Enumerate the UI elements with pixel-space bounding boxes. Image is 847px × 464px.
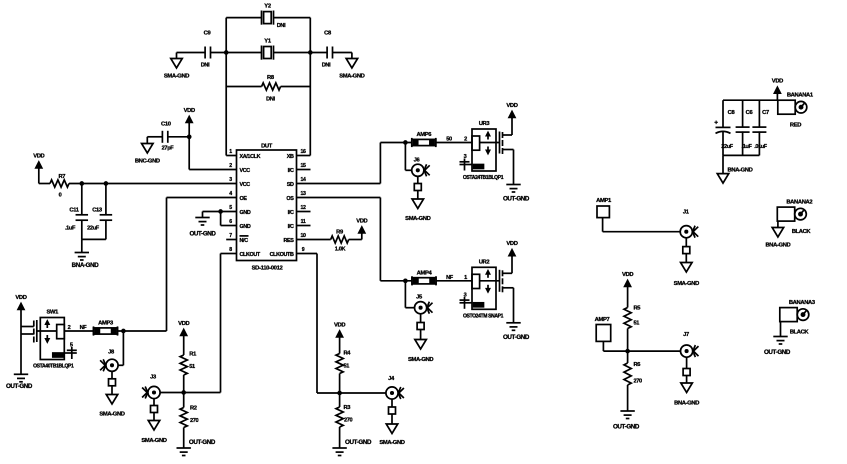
svg-text:VDD: VDD (15, 295, 26, 301)
svg-text:5: 5 (229, 205, 232, 211)
svg-text:RED: RED (790, 123, 801, 129)
ground SMA-GND (J1) (674, 238, 699, 287)
svg-text:8: 8 (229, 247, 232, 253)
svg-text:2: 2 (464, 137, 467, 143)
power VDD (banana input) (772, 79, 783, 101)
svg-text:SMA-GND: SMA-GND (339, 74, 364, 80)
svg-text:GND: GND (240, 224, 251, 230)
wire: AMP1 to J1 (603, 218, 680, 232)
ground OUT-GND (R6) (613, 385, 640, 431)
svg-text:12: 12 (300, 205, 306, 211)
svg-text:Y1: Y1 (264, 39, 272, 45)
connector J5 (415, 295, 433, 314)
banana jack BANANA2 (777, 200, 812, 235)
wire: tap to J6 (405, 143, 411, 171)
svg-text:DNI: DNI (201, 63, 210, 69)
svg-text:OUT-GND: OUT-GND (503, 196, 530, 203)
capacitor C6 (736, 100, 754, 155)
svg-text:C8: C8 (728, 110, 736, 116)
svg-text:C7: C7 (762, 110, 769, 116)
power VDD (pin 2 supply) (184, 108, 195, 170)
resistor R1 (180, 352, 197, 376)
svg-text:VDD: VDD (33, 153, 44, 159)
svg-text:AMP6: AMP6 (416, 132, 432, 138)
svg-text:270: 270 (190, 418, 199, 424)
svg-text:VCC: VCC (240, 182, 251, 188)
svg-text:I/C: I/C (288, 168, 294, 174)
buffer UR2 (460, 241, 530, 341)
ground SMA-GND (J4) (379, 399, 404, 446)
svg-text:SMA-GND: SMA-GND (99, 412, 124, 418)
wire: top rail left (crystal network) (225, 18, 227, 156)
svg-text:9: 9 (302, 247, 305, 253)
svg-text:BNA-GND: BNA-GND (72, 262, 100, 269)
capacitor C10 (161, 122, 174, 152)
wire: R5 to junction (626, 329, 629, 353)
ground SMA-GND (J5) (408, 314, 433, 363)
resistor R8 (262, 75, 281, 103)
svg-text:11: 11 (301, 219, 306, 225)
svg-text:BNA-GND: BNA-GND (728, 168, 753, 174)
svg-text:VDD: VDD (184, 108, 195, 114)
attenuator AMP4 (412, 270, 436, 285)
connector J3 (142, 375, 160, 399)
connector J8 (100, 350, 118, 372)
svg-text:CLKOUT: CLKOUT (240, 252, 261, 258)
wire: top rail right (crystal network) (309, 18, 311, 156)
svg-text:51: 51 (189, 364, 195, 370)
svg-text:SMA-GND: SMA-GND (164, 74, 189, 80)
wire: tap to J5 (405, 281, 414, 308)
buffer UR3 (460, 103, 530, 203)
svg-text:OUT-GND: OUT-GND (189, 231, 216, 238)
capacitor C13 (87, 184, 112, 240)
ground OUT-GND (pins 5,5.6) (189, 212, 216, 238)
svg-text:51: 51 (344, 364, 350, 370)
svg-text:OUT-GND: OUT-GND (189, 439, 216, 446)
resistor R4 (336, 351, 351, 374)
svg-text:VDD: VDD (334, 322, 345, 328)
power VDD (SW1) (15, 295, 26, 375)
svg-text:.1uF: .1uF (742, 144, 753, 150)
svg-text:BLACK: BLACK (792, 229, 812, 235)
power VDD (R7 input) (33, 153, 44, 183)
ground BNA-GND (J7) (674, 358, 699, 407)
svg-text:16: 16 (300, 149, 306, 155)
svg-text:14: 14 (300, 177, 306, 183)
svg-text:XB: XB (287, 154, 294, 160)
ground BNA-GND (cap bank) (717, 155, 752, 183)
svg-text:.01uF: .01uF (754, 144, 768, 150)
pin 8 number (229, 247, 232, 253)
svg-text:SD: SD (287, 182, 294, 188)
svg-text:OS: OS (286, 196, 294, 202)
svg-text:J4: J4 (388, 376, 395, 382)
svg-text:DUT: DUT (261, 144, 273, 150)
ground BNA-GND (BANANA2) (765, 221, 790, 248)
wire: AMP7 to J7 row (603, 341, 680, 351)
node: J6 tap (404, 141, 407, 144)
wire: SW1 pin 2 to AMP3 (64, 325, 93, 331)
svg-text:3: 3 (229, 177, 232, 183)
wire: C10 to VDD rail (147, 136, 189, 138)
node: C10 taps VDD rail (188, 135, 191, 138)
svg-text:OE: OE (240, 196, 248, 202)
svg-text:SMA-GND: SMA-GND (674, 281, 699, 287)
svg-text:6: 6 (229, 219, 232, 225)
wire: Y1 row (177, 52, 352, 54)
ground SMA-GND (J8) (99, 372, 124, 418)
ground OUT-GND (SW1) (6, 374, 33, 390)
svg-text:DNI: DNI (277, 23, 286, 29)
resistor R6 (624, 351, 642, 385)
attenuator AMP6 (412, 132, 436, 147)
svg-text:OSTO24TM SNAP1: OSTO24TM SNAP1 (463, 313, 504, 319)
ground SMA-GND (J6) (405, 177, 430, 222)
capacitor C7 (752, 100, 769, 155)
resistor R2 (180, 393, 198, 428)
connector J4 (386, 376, 404, 399)
svg-text:13: 13 (300, 191, 306, 197)
svg-text:BNC-GND: BNC-GND (135, 159, 160, 165)
svg-text:C10: C10 (161, 122, 171, 128)
wire: SW1 transistor leads (21, 327, 34, 335)
svg-text:VDD: VDD (622, 272, 633, 278)
svg-text:VDD: VDD (506, 103, 517, 109)
wire: R4 to junction (338, 374, 341, 395)
svg-text:R8: R8 (267, 75, 275, 81)
svg-text:50: 50 (446, 137, 452, 143)
svg-text:R6: R6 (634, 362, 641, 368)
svg-text:J8: J8 (108, 350, 115, 356)
svg-text:R4: R4 (344, 351, 352, 357)
svg-text:R5: R5 (634, 306, 642, 312)
svg-text:J7: J7 (683, 332, 689, 338)
svg-text:J6: J6 (414, 158, 421, 164)
svg-text:VCC: VCC (240, 168, 251, 174)
svg-text:2: 2 (68, 325, 71, 331)
svg-text:SMA-GND: SMA-GND (408, 357, 433, 363)
svg-text:AMP7: AMP7 (595, 317, 610, 323)
svg-text:BANANA1: BANANA1 (787, 93, 814, 99)
wire: pins 5,6 to OUT-GND (203, 210, 237, 226)
svg-text:UR3: UR3 (479, 121, 491, 127)
wire: AMP6 to UR3 pin 2 (436, 137, 472, 143)
svg-text:OUT-GND: OUT-GND (345, 439, 372, 446)
pin 7 N/C overline (240, 235, 249, 237)
svg-text:C13: C13 (92, 208, 103, 214)
node: Y1 row joins left rail (225, 51, 228, 54)
header AMP1 (596, 198, 612, 218)
svg-text:OUT-GND: OUT-GND (764, 349, 791, 356)
power VDD (R4) (334, 322, 345, 353)
svg-text:4: 4 (229, 191, 232, 197)
svg-text:C11: C11 (69, 208, 79, 214)
svg-text:CLKOUTB: CLKOUTB (270, 252, 294, 258)
pin 11 stub (297, 219, 311, 226)
resistor R7 (50, 174, 69, 199)
svg-text:XA/1CLK: XA/1CLK (240, 154, 261, 160)
svg-text:C8: C8 (324, 31, 332, 37)
pin 14 number (300, 177, 306, 183)
banana jack BANANA3 (780, 300, 816, 335)
svg-text:UR2: UR2 (479, 259, 490, 265)
svg-text:J1: J1 (683, 210, 690, 216)
capacitor C8 (322, 31, 333, 69)
svg-text:VDD: VDD (506, 241, 517, 247)
node: C11 tap (80, 182, 83, 185)
svg-text:SW1: SW1 (47, 310, 60, 316)
wire: Y2 top row (226, 17, 310, 19)
wire: AMP4 to UR2 pin 1 (436, 275, 472, 281)
ground SMA-GND (left of C9) (164, 53, 189, 80)
wire: pin 8 CLKOUT down to output row (160, 254, 236, 393)
wire: R7 to pin 3 (39, 183, 237, 185)
svg-text:2: 2 (229, 163, 232, 169)
attenuator AMP3 (94, 321, 118, 336)
svg-text:J5: J5 (416, 295, 423, 301)
wire: VDD to pin 2 (189, 169, 236, 171)
capacitor C9 (201, 31, 212, 69)
crystal Y1 (262, 39, 274, 60)
svg-text:I/C: I/C (288, 210, 294, 216)
svg-text:VDD: VDD (178, 321, 189, 327)
pin 12 stub (297, 205, 311, 212)
header AMP7 (595, 317, 611, 341)
svg-text:BLACK: BLACK (790, 330, 810, 336)
connector J6 (412, 158, 430, 177)
svg-text:22uF: 22uF (721, 144, 733, 150)
ground OUT-GND (R2) (177, 428, 216, 456)
svg-text:BNA-GND: BNA-GND (674, 401, 699, 407)
ground OUT-GND (R3) (332, 427, 372, 456)
ground SMA-GND (right of C8) (339, 53, 364, 80)
wire: cap commons (82, 238, 106, 240)
svg-text:OUT-GND: OUT-GND (613, 424, 640, 431)
svg-text:AMP1: AMP1 (596, 198, 612, 204)
node: Y1 row joins right rail (309, 51, 312, 54)
svg-text:RES: RES (283, 238, 294, 244)
pin 2 number (229, 163, 232, 169)
pin 10 number (300, 233, 306, 239)
resistor R9 (297, 230, 362, 253)
svg-text:OSTA40TB1BLQP1: OSTA40TB1BLQP1 (33, 364, 74, 370)
svg-text:C6: C6 (746, 110, 754, 116)
svg-text:NF: NF (446, 275, 454, 281)
ground BNC-GND (left of C10) (135, 137, 160, 165)
svg-text:SD-110-0012: SD-110-0012 (252, 266, 284, 272)
svg-text:DNI: DNI (266, 97, 275, 103)
svg-text:1: 1 (229, 149, 232, 155)
ground BNA-GND (under C11/C13) (72, 239, 100, 269)
svg-text:R9: R9 (336, 230, 344, 236)
svg-text:Y2: Y2 (264, 4, 271, 10)
svg-text:51: 51 (634, 321, 640, 327)
svg-text:DNI: DNI (322, 63, 331, 69)
svg-text:270: 270 (344, 418, 353, 424)
node: J8 tap (122, 330, 125, 333)
svg-text:C9: C9 (204, 31, 212, 37)
svg-text:10: 10 (300, 233, 306, 239)
svg-text:15: 15 (300, 163, 306, 169)
svg-text:.1uF: .1uF (65, 226, 76, 232)
svg-text:J3: J3 (150, 375, 157, 381)
svg-text:NF: NF (80, 325, 88, 331)
pin 4 number (229, 191, 232, 197)
banana jack BANANA1 (778, 93, 814, 129)
pin 1 stub (226, 149, 236, 156)
crystal Y2 (262, 4, 287, 30)
node: J5 tap (404, 279, 407, 282)
pin 5 number (229, 205, 232, 211)
svg-text:22uF: 22uF (87, 226, 100, 232)
svg-text:SMA-GND: SMA-GND (141, 438, 166, 444)
wire: VDD distribution rail (723, 99, 778, 101)
wire: cap bank bottom rail (723, 154, 759, 156)
wire: R1 to junction (182, 375, 185, 394)
svg-text:OSTA24TB1BLQP1: OSTA24TB1BLQP1 (463, 175, 504, 181)
connector J7 (681, 332, 699, 357)
connector J1 (680, 210, 698, 238)
resistor R3 (336, 393, 353, 427)
svg-text:R7: R7 (58, 174, 65, 180)
svg-text:1.0K: 1.0K (335, 247, 346, 253)
svg-text:27pF: 27pF (162, 146, 175, 152)
pin 16 stub (297, 149, 311, 156)
svg-text:VDD: VDD (772, 79, 783, 85)
wire: pin 4 OE to SW1/AMP3 net (118, 198, 237, 332)
svg-text:VDD: VDD (356, 218, 367, 224)
pin 15 stub (297, 163, 311, 170)
svg-text:+: + (714, 120, 718, 127)
wire: pin 9 CLKOUTB down to output row (297, 254, 386, 394)
resistor R5 (624, 306, 641, 329)
svg-text:0: 0 (59, 193, 62, 199)
power VDD (R5) (622, 272, 633, 308)
wire: pin 13 to AMP4 (297, 198, 413, 281)
svg-text:7: 7 (229, 233, 232, 239)
svg-text:BANANA3: BANANA3 (789, 300, 816, 306)
wire: pin 14 to AMP6 (297, 143, 412, 184)
wire: R8 row (226, 86, 310, 88)
svg-text:1: 1 (464, 275, 467, 281)
pin 9 number (302, 247, 305, 253)
svg-text:N/C: N/C (240, 238, 249, 244)
IC U1 DUT (237, 144, 297, 272)
svg-text:R1: R1 (189, 352, 197, 358)
capacitor C8 (bulk) (714, 100, 735, 155)
pin 13 number (300, 191, 306, 197)
svg-text:I/C: I/C (288, 224, 294, 230)
capacitor C11 (65, 184, 88, 240)
svg-text:BNA-GND: BNA-GND (765, 243, 790, 249)
switch SW1 (33, 310, 77, 370)
power VDD (R9) (356, 218, 367, 239)
svg-text:AMP3: AMP3 (98, 321, 114, 327)
pin 6 number (229, 219, 232, 225)
power VDD (R1) (178, 321, 189, 355)
wire: tap to J8 (118, 331, 123, 365)
ground SMA-GND (J3) (141, 399, 166, 444)
svg-text:R3: R3 (344, 405, 351, 411)
svg-text:SMA-GND: SMA-GND (405, 216, 430, 222)
node: C13 tap (104, 182, 107, 185)
svg-text:SMA-GND: SMA-GND (379, 440, 404, 446)
pin 7 stub (226, 233, 236, 240)
pin 3 number (229, 177, 232, 183)
svg-text:270: 270 (634, 379, 643, 385)
svg-text:GND: GND (240, 210, 251, 216)
svg-text:R2: R2 (190, 406, 197, 412)
svg-text:BANANA2: BANANA2 (786, 200, 812, 206)
svg-text:OUT-GND: OUT-GND (6, 383, 33, 390)
ground OUT-GND (BANANA3) (764, 322, 791, 356)
svg-text:AMP4: AMP4 (417, 270, 433, 276)
svg-text:OUT-GND: OUT-GND (503, 334, 530, 341)
